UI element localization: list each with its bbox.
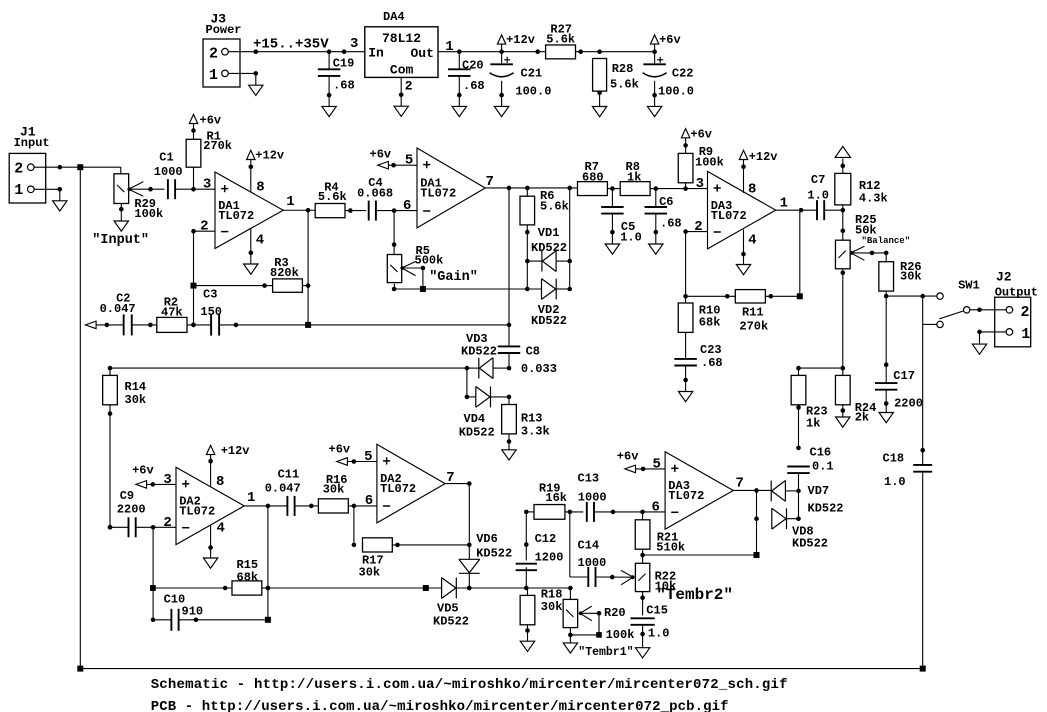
svg-text:"Balance": "Balance" — [862, 236, 911, 246]
svg-text:68k: 68k — [699, 316, 721, 330]
diode VD3 KD522 — [461, 332, 511, 379]
svg-text:5.6k: 5.6k — [610, 78, 639, 92]
svg-text:8: 8 — [256, 179, 264, 195]
capacitor C2 0.047 — [100, 291, 157, 335]
svg-text:R13: R13 — [521, 411, 543, 425]
svg-text:68k: 68k — [237, 570, 259, 584]
svg-text:0.033: 0.033 — [521, 362, 557, 376]
resistor R27 5.6k — [546, 22, 576, 59]
net arrow to other channel — [85, 321, 124, 329]
svg-text:2: 2 — [200, 219, 208, 235]
svg-text:6: 6 — [403, 198, 411, 214]
capacitor C22 100.0 — [643, 52, 694, 107]
resistor R16 30k — [318, 473, 377, 513]
wire diode right link — [798, 491, 800, 519]
svg-text:KD522: KD522 — [459, 425, 495, 439]
svg-text:R28: R28 — [612, 62, 634, 76]
svg-text:TL072: TL072 — [668, 489, 704, 503]
ground at DA4 Com — [394, 106, 408, 116]
wire J3 pin1 to ground — [228, 71, 258, 85]
svg-text:1k: 1k — [806, 417, 820, 431]
svg-text:C6: C6 — [659, 195, 673, 209]
svg-text:1.0: 1.0 — [620, 230, 642, 244]
ground at J2 pin1 — [972, 344, 986, 354]
capacitor C6 .68 — [645, 189, 682, 244]
node bus tap at J1 — [77, 164, 83, 170]
resistor R13 3.3k — [502, 397, 550, 450]
svg-text:680: 680 — [582, 171, 604, 185]
voltage regulator DA4 78L12 — [350, 10, 454, 77]
svg-text:C18: C18 — [883, 451, 905, 465]
svg-text:1: 1 — [14, 182, 23, 199]
svg-text:TL072: TL072 — [380, 482, 416, 496]
svg-text:270k: 270k — [203, 139, 232, 153]
svg-text:3: 3 — [696, 176, 704, 192]
ground under R29 — [114, 221, 128, 231]
svg-text:KD522: KD522 — [433, 615, 469, 629]
svg-text:8: 8 — [216, 474, 224, 490]
svg-text:100k: 100k — [606, 628, 635, 642]
svg-text:1000: 1000 — [578, 491, 607, 505]
svg-text:1: 1 — [209, 67, 218, 84]
diode VD4 KD522 — [459, 387, 512, 440]
svg-text:0.1: 0.1 — [812, 460, 834, 474]
wire DA3 pin4 to ground — [741, 229, 746, 264]
wire tone row to VD5 — [268, 587, 442, 589]
wire C14 branch — [570, 512, 589, 577]
wire R17 feedback — [352, 506, 357, 548]
svg-text:C13: C13 — [578, 472, 600, 486]
svg-text:+6v: +6v — [690, 127, 712, 141]
svg-text:30k: 30k — [125, 393, 147, 407]
svg-text:Com: Com — [390, 62, 414, 77]
svg-text:C3: C3 — [203, 287, 217, 301]
ground under R24 — [836, 417, 850, 427]
ground at J1 pin1 — [53, 201, 67, 211]
ground under R20 — [563, 643, 577, 653]
op-amp DA2 (pins 5,6,7) — [364, 444, 455, 523]
svg-text:+12v: +12v — [506, 33, 535, 47]
power +6v arrow on rail — [650, 33, 680, 52]
svg-text:5: 5 — [652, 456, 660, 472]
wire VD3-VD4 left link — [465, 368, 470, 399]
svg-text:16k: 16k — [545, 491, 567, 505]
svg-text:Input: Input — [14, 136, 50, 150]
svg-text:4: 4 — [217, 521, 225, 537]
svg-text:VD6: VD6 — [476, 532, 498, 546]
wire DA2 pin7 output — [445, 481, 472, 559]
svg-text:VD5: VD5 — [437, 602, 459, 616]
wire C18 branch vertical — [920, 296, 925, 465]
svg-text:+6v: +6v — [370, 148, 392, 162]
wire diode clamp right side — [569, 189, 571, 289]
svg-text:3.3k: 3.3k — [521, 424, 550, 438]
svg-text:1000: 1000 — [578, 556, 607, 570]
svg-text:8: 8 — [748, 182, 756, 198]
net +6v arrow at DA1 pin5 — [370, 148, 418, 170]
wire J1 pin2 to R29 — [34, 165, 121, 174]
caption schematic url — [151, 677, 788, 693]
wire DA3 out to diodes — [733, 488, 771, 555]
capacitor C5 1.0 — [601, 189, 642, 245]
power +6v arrow above R9 — [681, 127, 712, 141]
svg-text:5.6k: 5.6k — [318, 190, 347, 204]
svg-text:C15: C15 — [646, 604, 668, 618]
ground under R18 — [520, 641, 534, 651]
switch SW1 — [937, 279, 1006, 328]
capacitor C10 910 — [151, 588, 268, 631]
node DA3 feedback junction — [797, 293, 803, 299]
power +12v arrow at DA3 pin8 — [739, 150, 777, 193]
capacitor C21 100.0 — [490, 52, 552, 107]
resistor R1 270k — [186, 124, 232, 190]
wire DA4 Out rail +12v — [438, 49, 546, 54]
svg-text:C23: C23 — [700, 343, 722, 357]
svg-text:C21: C21 — [521, 67, 543, 81]
op-amp DA3 (pins 5,6,7) — [651, 452, 743, 530]
power +12v arrow at DA4 output — [497, 33, 535, 52]
svg-text:C22: C22 — [672, 67, 694, 81]
svg-text:4: 4 — [748, 232, 756, 248]
resistor R3 820k — [194, 256, 309, 292]
capacitor C3 150 — [200, 287, 222, 335]
svg-text:C14: C14 — [578, 539, 600, 553]
svg-text:J2: J2 — [996, 270, 1012, 285]
svg-text:4: 4 — [256, 232, 264, 248]
resistor R19 16k — [524, 481, 583, 519]
svg-text:6: 6 — [651, 499, 659, 515]
svg-text:TL072: TL072 — [711, 209, 747, 223]
ground under C22 — [647, 106, 661, 116]
ground at J3 pin1 — [249, 85, 263, 95]
svg-text:5: 5 — [405, 153, 413, 169]
svg-text:0.047: 0.047 — [265, 482, 301, 496]
svg-text:78L12: 78L12 — [382, 31, 421, 46]
svg-text:TL072: TL072 — [218, 209, 254, 223]
svg-text:C8: C8 — [526, 345, 540, 359]
net +6v arrow at DA3 pin5 — [617, 449, 665, 472]
resistor R21 510k — [635, 512, 685, 563]
svg-text:KD522: KD522 — [808, 502, 844, 516]
wire C1 to DA1 pin3 — [175, 187, 215, 192]
capacitor C4 0.068 — [357, 176, 393, 221]
svg-text:2200: 2200 — [894, 397, 923, 411]
svg-text:C7: C7 — [811, 173, 825, 187]
svg-text:5: 5 — [364, 449, 372, 465]
trimmer R22 10k Tembr2 — [621, 563, 676, 615]
op-amp DA1 (pins 5,6,7) — [403, 148, 494, 228]
ground under C19 — [322, 106, 336, 116]
wire C3 to feedback node — [219, 323, 509, 328]
capacitor C7 1.0 — [807, 173, 845, 220]
arrow above R12 — [835, 146, 850, 157]
svg-text:In: In — [368, 46, 384, 61]
trimmer R5 500k Gain — [387, 244, 443, 289]
svg-text:510k: 510k — [656, 541, 685, 555]
ground under C6 — [649, 244, 663, 254]
svg-text:2k: 2k — [855, 411, 869, 425]
svg-text:Schematic - http://users.i.com: Schematic - http://users.i.com.ua/~miros… — [151, 677, 788, 693]
svg-text:100k: 100k — [695, 155, 724, 169]
wire C4 to DA1 pin6 — [376, 208, 417, 213]
wire R7-R8 junction — [607, 186, 620, 191]
wire SW1 lower throw — [923, 323, 937, 325]
svg-text:C11: C11 — [278, 468, 300, 482]
resistor R28 5.6k — [593, 59, 639, 107]
svg-text:+6v: +6v — [200, 113, 222, 127]
wire bottom bus — [80, 668, 922, 670]
svg-text:0.047: 0.047 — [100, 302, 136, 316]
svg-text:30k: 30k — [359, 566, 381, 580]
svg-text:1.0: 1.0 — [807, 189, 829, 203]
svg-text:1.0: 1.0 — [884, 475, 906, 489]
svg-text:1k: 1k — [627, 171, 641, 185]
svg-text:.68: .68 — [660, 216, 682, 230]
svg-text:KD522: KD522 — [792, 537, 828, 551]
diode VD2 KD522 — [531, 279, 572, 328]
svg-text:3: 3 — [203, 177, 211, 193]
node tone row junction — [423, 585, 429, 591]
wire R27 to +6v node — [576, 49, 657, 54]
wire J1 pin1 to ground — [34, 187, 62, 201]
wire DA2 output — [244, 504, 287, 509]
op-amp DA1 (pins 3,2,1) — [200, 172, 295, 249]
svg-text:+12v: +12v — [255, 149, 284, 163]
wire DA1 pin4 to ground — [249, 229, 254, 264]
resistor R24 2k — [835, 368, 876, 425]
capacitor C9 2200 — [108, 489, 176, 537]
capacitor C17 2200 — [875, 296, 923, 412]
svg-text:1.0: 1.0 — [648, 627, 670, 641]
svg-text:1: 1 — [780, 196, 788, 212]
svg-text:3: 3 — [350, 36, 358, 52]
ground under C15 — [635, 648, 649, 658]
diode VD7 KD522 — [771, 481, 843, 516]
net name Gain — [429, 270, 478, 285]
wire DA1 pin7 output row — [485, 186, 577, 191]
wire DA3 output feedback — [776, 208, 817, 296]
wire R5 bottom row — [392, 284, 542, 292]
svg-text:6: 6 — [365, 493, 373, 509]
resistor R18 30k — [520, 588, 562, 642]
svg-text:+12v: +12v — [749, 150, 778, 164]
diode VD6 KD522 — [459, 532, 512, 590]
svg-text:PCB - http://users.i.com.ua/~m: PCB - http://users.i.com.ua/~miroshko/mi… — [151, 699, 729, 712]
svg-text:VD1: VD1 — [538, 226, 560, 240]
net name Tembr1 — [578, 646, 633, 659]
svg-text:5.6k: 5.6k — [540, 200, 569, 214]
capacitor C18 1.0 — [883, 451, 933, 668]
caption pcb url — [151, 699, 729, 712]
wire DA1 output to R4 — [283, 208, 315, 213]
ground under C20 — [452, 106, 466, 116]
capacitor C16 0.1 — [787, 446, 833, 491]
svg-text:R11: R11 — [742, 305, 764, 319]
wire R23/R24 top row — [796, 366, 845, 371]
svg-text:C17: C17 — [893, 369, 915, 383]
svg-text:.68: .68 — [333, 79, 355, 93]
node bus left end — [77, 666, 83, 672]
svg-text:1: 1 — [445, 39, 453, 55]
svg-text:C20: C20 — [462, 59, 484, 73]
svg-text:.68: .68 — [463, 79, 485, 93]
svg-text:TL072: TL072 — [420, 187, 456, 201]
svg-text:KD522: KD522 — [461, 345, 497, 359]
resistor R26 30k — [879, 252, 922, 298]
capacitor C14 1000 — [578, 539, 634, 588]
op-amp DA3 (pins 3,2,1) — [694, 171, 788, 249]
wire R2 to C3 — [187, 323, 211, 328]
ground at DA2 pin4 — [203, 558, 217, 568]
svg-text:+15..+35V: +15..+35V — [253, 36, 329, 52]
wire VD5 row to R20 tap — [526, 586, 572, 591]
svg-text:2: 2 — [694, 219, 702, 235]
svg-text:SW1: SW1 — [958, 279, 980, 293]
svg-text:+6v: +6v — [617, 449, 639, 463]
svg-text:30k: 30k — [541, 600, 563, 614]
svg-text:+6v: +6v — [132, 463, 154, 477]
resistor R7 680 — [578, 160, 608, 196]
diode VD8 KD522 — [772, 508, 828, 550]
wire R29 wiper to C1 — [129, 187, 165, 192]
svg-text:C12: C12 — [535, 532, 557, 546]
svg-text:1: 1 — [247, 490, 255, 506]
svg-text:KD522: KD522 — [476, 547, 512, 561]
connector J2 (Output) — [995, 270, 1038, 347]
svg-text:4.3k: 4.3k — [859, 191, 888, 205]
node bus right end — [920, 666, 926, 672]
svg-text:"Gain": "Gain" — [429, 270, 478, 285]
svg-text:KD522: KD522 — [531, 241, 567, 255]
trimmer R29 100k Input — [114, 174, 163, 221]
svg-text:100.0: 100.0 — [515, 84, 551, 98]
resistor R8 1k — [620, 160, 650, 196]
svg-text:270k: 270k — [739, 319, 768, 333]
wire DA2 pin4 to ground — [208, 525, 213, 558]
wire output down to R3/C3 — [306, 210, 311, 325]
svg-text:1: 1 — [286, 194, 294, 210]
wire DA3 pin2 node — [683, 229, 707, 298]
ground at DA3 pin4 — [736, 265, 750, 275]
wire DA1 out down to C8 — [507, 189, 512, 347]
capacitor C19 .68 — [318, 52, 355, 107]
svg-text:30k: 30k — [323, 483, 345, 497]
net +6v arrow at DA2 pin3 — [132, 463, 176, 488]
svg-text:"Tembr2": "Tembr2" — [656, 586, 733, 604]
svg-text:Out: Out — [411, 46, 434, 61]
svg-text:.68: .68 — [701, 356, 723, 370]
svg-text:TL072: TL072 — [179, 505, 215, 519]
capacitor C23 .68 — [674, 343, 722, 392]
capacitor C20 .68 — [448, 52, 485, 107]
net +6v arrow at DA2 pin5 — [329, 443, 377, 466]
resistor R4 5.6k — [315, 180, 366, 217]
wire DA2 out down to C10 — [266, 506, 271, 620]
wire pin6 node down to R5 — [392, 211, 397, 254]
wire R8 to DA3 pin3 — [650, 186, 707, 191]
node C3 row junction — [305, 322, 311, 328]
ground under C17 — [879, 413, 893, 423]
svg-text:100k: 100k — [134, 207, 163, 221]
resistor R17 30k — [359, 538, 470, 580]
node Gain wiper junction — [420, 286, 426, 292]
ground under C5 — [605, 244, 619, 254]
svg-text:1000: 1000 — [154, 165, 183, 179]
connector J1 (Input) — [9, 125, 49, 204]
node R3 junction — [191, 283, 197, 289]
ground under R28 — [592, 107, 606, 117]
capacitor C15 1.0 — [631, 604, 670, 648]
svg-text:2: 2 — [209, 46, 218, 63]
node feedback bottom junction — [754, 552, 760, 558]
wire R21 bottom row — [643, 554, 757, 556]
net name Balance — [862, 236, 911, 246]
net name Input — [92, 233, 149, 248]
capacitor C13 1000 — [578, 472, 666, 522]
svg-text:C16: C16 — [810, 446, 832, 460]
wire DA4 pin2 (Com) to ground — [399, 77, 413, 106]
resistor R23 1k — [791, 368, 827, 450]
power +12v arrow at DA2 pin8 — [206, 444, 249, 487]
svg-text:VD7: VD7 — [808, 484, 830, 498]
wire left bus vertical — [79, 167, 81, 668]
wire DA1 pin2 node — [191, 229, 215, 327]
resistor R14 30k — [103, 368, 146, 529]
node C10 junction — [265, 617, 271, 623]
diode VD1 KD522 — [527, 226, 572, 271]
svg-text:1200: 1200 — [535, 550, 564, 564]
svg-text:+6v: +6v — [659, 33, 681, 47]
svg-text:0.068: 0.068 — [357, 186, 393, 200]
svg-text:R14: R14 — [125, 380, 147, 394]
resistor R15 68k — [153, 558, 270, 595]
svg-text:KD522: KD522 — [531, 314, 567, 328]
ground under R13 — [502, 450, 516, 460]
svg-text:820k: 820k — [270, 266, 299, 280]
svg-text:500k: 500k — [415, 254, 444, 268]
svg-text:100.0: 100.0 — [658, 84, 694, 98]
wire C8 node to R14 — [108, 366, 467, 371]
svg-text:DA4: DA4 — [383, 10, 405, 24]
resistor R12 4.3k — [835, 159, 888, 212]
svg-text:+12v: +12v — [221, 444, 250, 458]
svg-text:R20: R20 — [604, 606, 626, 620]
svg-text:+6v: +6v — [329, 443, 351, 457]
op-amp DA2 (pins 3,2,1) — [163, 467, 255, 544]
svg-text:C9: C9 — [120, 489, 134, 503]
svg-text:2200: 2200 — [117, 503, 146, 517]
svg-text:C19: C19 — [333, 57, 355, 71]
resistor R2 47k — [157, 295, 187, 332]
ground at DA1 pin4 — [244, 264, 258, 274]
power +12v arrow at DA1 pin8 — [247, 149, 285, 193]
net name Tembr2 — [656, 586, 733, 604]
trimmer R20 100k Tembr1 — [563, 588, 634, 643]
svg-text:VD4: VD4 — [464, 412, 486, 426]
svg-text:C1: C1 — [159, 151, 173, 165]
resistor R9 100k — [678, 138, 724, 189]
svg-text:7: 7 — [736, 475, 744, 491]
capacitor C8 0.033 — [498, 345, 557, 376]
wire J3 pin2 to DA4 In, +15..+35V — [228, 36, 364, 54]
svg-text:3: 3 — [163, 472, 171, 488]
resistor R6 5.6k — [520, 189, 569, 289]
capacitor C11 0.047 — [265, 468, 319, 516]
svg-text:2: 2 — [163, 515, 171, 531]
resistor R11 270k — [686, 290, 800, 334]
svg-text:30k: 30k — [900, 270, 922, 284]
resistor R10 68k — [678, 296, 720, 359]
